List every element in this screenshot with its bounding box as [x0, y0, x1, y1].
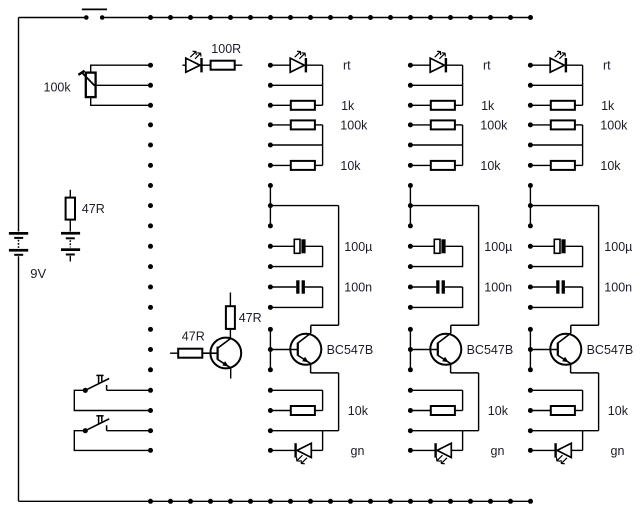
wire emitter vertical block3 — [598, 373, 600, 431]
label gn block3 — [611, 444, 625, 458]
wire gn LED junction block1 — [322, 431, 324, 451]
label 100µ block3 — [604, 240, 632, 254]
battery cell (below 47R) — [61, 232, 80, 262]
label gn block1 — [351, 444, 365, 458]
wire cap1 return block1 — [270, 246, 322, 266]
bottom rail junction dots — [148, 499, 533, 504]
wire row2 block2 — [410, 84, 462, 86]
LED rt block3 (red) — [530, 51, 582, 72]
wire node column jumper block3 — [529, 186, 531, 226]
wire row17 block3 — [530, 389, 582, 391]
wire node column jumper block2 — [409, 186, 411, 226]
svg-text:100µ: 100µ — [344, 240, 372, 254]
wire base column jumper block2 — [409, 329, 411, 369]
wire junction LED group block3 — [582, 65, 584, 105]
wire switch S2 pivot to lower node — [74, 390, 150, 410]
LED gn block1 (green) — [270, 443, 322, 464]
label 100n block2 — [484, 281, 512, 295]
capacitor 100µ block1 (electrolytic) — [270, 239, 322, 253]
svg-text:9V: 9V — [30, 266, 46, 281]
transistor BC547B block1 — [270, 325, 338, 373]
svg-text:10k: 10k — [348, 404, 369, 418]
wire collector vertical block1 — [338, 206, 340, 326]
wire row19 block3 — [530, 430, 598, 432]
svg-text:rt: rt — [343, 59, 351, 73]
transistor BC547B block2 — [410, 325, 478, 373]
svg-text:100k: 100k — [600, 118, 628, 132]
wire switch S3 pivot to lower node — [74, 431, 150, 451]
resistor 100R — [202, 61, 243, 70]
wire cap1 return block2 — [410, 246, 462, 266]
svg-text:10k: 10k — [340, 159, 361, 173]
battery 9V — [9, 232, 28, 256]
resistor 10k block1 (upper) — [270, 161, 322, 170]
wire top supply rail left segment — [19, 17, 85, 19]
svg-text:10k: 10k — [480, 159, 501, 173]
wire node column jumper block1 — [269, 186, 271, 226]
wire battery negative lead — [18, 256, 20, 501]
label 10k block3 (emitter) — [608, 404, 629, 418]
switch S1 (open switch in top rail) — [82, 9, 107, 19]
wire pot bottom terminal — [91, 97, 151, 105]
wire pot top terminal — [91, 65, 151, 72]
label 100k block3 — [600, 118, 628, 132]
capacitor 100n block3 — [530, 280, 582, 293]
wire collector feed block2 — [410, 205, 478, 207]
label BC547B block3 — [587, 343, 634, 357]
svg-text:47R: 47R — [82, 202, 105, 216]
capacitor 100n block1 — [270, 280, 322, 293]
label 10k block2 (upper) — [480, 159, 501, 173]
wire row5 block2 — [410, 144, 462, 146]
wire switch S3 fixed contact to node — [107, 430, 151, 432]
wire junction resistor group block1 — [322, 125, 324, 165]
label 47R (base resistor) — [182, 330, 205, 344]
label 1k block3 — [601, 99, 615, 113]
svg-text:1k: 1k — [341, 99, 355, 113]
svg-text:100n: 100n — [484, 281, 512, 295]
resistor 100k block3 — [530, 120, 582, 129]
wire switch S2 fixed contact to node — [107, 389, 151, 391]
LED rt block2 (red) — [410, 51, 462, 72]
wire row17 block1 — [270, 389, 322, 391]
wire battery positive lead (left edge) — [18, 18, 20, 232]
wire 10k junction block1 — [322, 390, 324, 410]
label 100k — [44, 80, 72, 94]
wire row17 block2 — [410, 389, 462, 391]
wire cap2 return block1 — [270, 287, 322, 307]
svg-text:100k: 100k — [340, 118, 368, 132]
label gn block2 — [491, 444, 505, 458]
resistor 10k block2 (upper) — [410, 161, 462, 170]
svg-text:100n: 100n — [604, 281, 632, 295]
label 100R — [211, 42, 241, 56]
label 10k block3 (upper) — [600, 159, 621, 173]
capacitor 100µ block2 (electrolytic) — [410, 239, 462, 253]
transistor BC547B block3 — [530, 325, 598, 373]
wire row5 block1 — [270, 144, 322, 146]
label 1k block2 — [481, 99, 495, 113]
wire 10k junction block2 — [462, 390, 464, 410]
svg-text:100µ: 100µ — [604, 240, 632, 254]
LED rt block1 (red) — [270, 51, 322, 72]
wire base column jumper block3 — [529, 329, 531, 369]
svg-text:1k: 1k — [481, 99, 495, 113]
wire base column jumper block1 — [269, 329, 271, 369]
label 100µ block2 — [484, 240, 512, 254]
label 100k block2 — [480, 118, 508, 132]
LED D1 (loose part) — [182, 51, 201, 72]
capacitor 100n block2 — [410, 280, 462, 293]
wire collector vertical block2 — [478, 206, 480, 326]
wire emitter vertical block2 — [478, 373, 480, 431]
transistor Q4 (driver) — [202, 338, 241, 369]
label 10k block1 (emitter) — [348, 404, 369, 418]
node column A (x=150) dots — [148, 63, 153, 453]
svg-text:BC547B: BC547B — [587, 343, 634, 357]
label 10k block2 (emitter) — [488, 404, 509, 418]
wire row2 block3 — [530, 84, 582, 86]
resistor 100k block1 — [270, 120, 322, 129]
label BC547B block1 — [327, 343, 374, 357]
svg-text:100k: 100k — [480, 118, 508, 132]
svg-text:100µ: 100µ — [484, 240, 512, 254]
label 100n block3 — [604, 281, 632, 295]
wire collector feed block1 — [270, 205, 338, 207]
LED gn block2 (green) — [410, 443, 462, 464]
push-button switch S2 — [83, 375, 109, 393]
resistor 47R (collector) — [226, 293, 235, 339]
wire bottom supply rail — [19, 500, 531, 502]
wire cap2 return block2 — [410, 287, 462, 307]
wire collector feed block3 — [530, 205, 598, 207]
node column block3 dots — [528, 63, 533, 453]
wire cap2 return block3 — [530, 287, 582, 307]
wire row19 block2 — [410, 430, 478, 432]
svg-text:BC547B: BC547B — [327, 343, 374, 357]
svg-text:100n: 100n — [344, 281, 372, 295]
label rt block3 — [603, 59, 611, 73]
top rail junction dots — [148, 15, 533, 20]
wire junction resistor group block3 — [582, 125, 584, 165]
svg-text:BC547B: BC547B — [467, 343, 514, 357]
label 10k block1 (upper) — [340, 159, 361, 173]
svg-text:10k: 10k — [600, 159, 621, 173]
resistor 10k block2 (emitter) — [410, 406, 462, 415]
node column block1 dots — [268, 63, 273, 453]
svg-text:47R: 47R — [182, 330, 205, 344]
label BC547B block2 — [467, 343, 514, 357]
svg-text:rt: rt — [483, 59, 491, 73]
label 47R (collector resistor) — [239, 311, 262, 325]
wire 10k junction block3 — [582, 390, 584, 410]
wire row19 block1 — [270, 430, 338, 432]
potentiometer 100k — [78, 71, 95, 97]
resistor 47R (base) — [170, 349, 202, 358]
svg-text:rt: rt — [603, 59, 611, 73]
svg-text:gn: gn — [611, 444, 625, 458]
label 47R — [82, 202, 105, 216]
capacitor 100µ block3 (electrolytic) — [530, 239, 582, 253]
svg-text:10k: 10k — [608, 404, 629, 418]
label 100n block1 — [344, 281, 372, 295]
wire row2 block1 — [270, 84, 322, 86]
wire pot wiper — [96, 84, 151, 86]
label 100µ block1 — [344, 240, 372, 254]
wire top supply rail — [104, 17, 530, 19]
svg-text:gn: gn — [351, 444, 365, 458]
label 9V — [30, 266, 46, 281]
svg-text:100R: 100R — [211, 42, 241, 56]
svg-text:47R: 47R — [239, 311, 262, 325]
wire junction LED group block1 — [322, 65, 324, 105]
label rt block2 — [483, 59, 491, 73]
label 100k block1 — [340, 118, 368, 132]
wire collector vertical block3 — [598, 206, 600, 326]
resistor 47R (series with cell) — [66, 190, 75, 232]
wire gn LED junction block3 — [582, 431, 584, 451]
push-button switch S3 — [83, 416, 109, 434]
LED gn block3 (green) — [530, 443, 582, 464]
svg-text:100k: 100k — [44, 80, 72, 94]
resistor 100k block2 — [410, 120, 462, 129]
resistor 1k block2 — [410, 101, 462, 110]
svg-text:10k: 10k — [488, 404, 509, 418]
wire gn LED junction block2 — [462, 431, 464, 451]
wire emitter vertical block1 — [338, 373, 340, 431]
wire row5 block3 — [530, 144, 582, 146]
node column block2 dots — [408, 63, 413, 453]
wire junction resistor group block2 — [462, 125, 464, 165]
wire Q4 emitter stub — [230, 368, 232, 379]
wire junction LED group block2 — [462, 65, 464, 105]
wire cap1 return block3 — [530, 246, 582, 266]
resistor 10k block3 (upper) — [530, 161, 582, 170]
resistor 1k block1 — [270, 101, 322, 110]
label rt block1 — [343, 59, 351, 73]
svg-text:1k: 1k — [601, 99, 615, 113]
svg-text:gn: gn — [491, 444, 505, 458]
resistor 1k block3 — [530, 101, 582, 110]
resistor 10k block1 (emitter) — [270, 406, 322, 415]
resistor 10k block3 (emitter) — [530, 406, 582, 415]
label 1k block1 — [341, 99, 355, 113]
